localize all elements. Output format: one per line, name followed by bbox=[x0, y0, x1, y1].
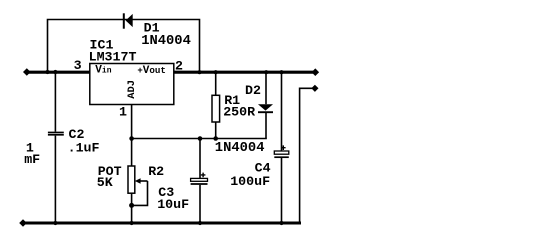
node mid-pot bbox=[129, 136, 134, 141]
svg-text:mF: mF bbox=[24, 152, 40, 167]
node gnd-pot bbox=[130, 221, 134, 225]
input terminal diamond bbox=[23, 68, 31, 76]
svg-text:250R: 250R bbox=[223, 105, 255, 120]
node out-D2 bbox=[264, 70, 268, 74]
node out-R1 bbox=[214, 70, 218, 74]
diode D1 bbox=[124, 13, 133, 28]
svg-text:Vin: Vin bbox=[95, 65, 111, 77]
svg-text:1N4004: 1N4004 bbox=[215, 141, 265, 156]
svg-text:100uF: 100uF bbox=[230, 174, 270, 189]
svg-text:+Vout: +Vout bbox=[137, 65, 166, 77]
node gnd-C4 bbox=[279, 221, 283, 225]
wire ADJ pin1 bbox=[131, 105, 133, 139]
svg-text:LM317T: LM317T bbox=[89, 49, 137, 64]
regulator IC1 LM317T box bbox=[90, 64, 174, 105]
ground rail wire bbox=[25, 222, 301, 225]
svg-text:1N4004: 1N4004 bbox=[141, 34, 191, 49]
output terminal diamond bbox=[312, 68, 320, 76]
svg-text:.1uF: .1uF bbox=[68, 140, 100, 155]
node input-C2 bbox=[53, 70, 57, 74]
wire thick output bbox=[174, 71, 313, 74]
svg-text:10uF: 10uF bbox=[157, 197, 189, 212]
svg-text:D2: D2 bbox=[245, 83, 261, 98]
top rail wire bbox=[48, 20, 200, 71]
wire mid rail bbox=[132, 138, 267, 140]
node mid-C3 bbox=[198, 136, 203, 141]
capacitor C4 bbox=[274, 73, 289, 222]
svg-text:5K: 5K bbox=[97, 175, 113, 190]
node out-toprail bbox=[197, 70, 201, 74]
node input-toprail bbox=[45, 70, 49, 74]
svg-text:3: 3 bbox=[74, 58, 82, 73]
resistor R1 bbox=[212, 73, 220, 139]
node gnd-C3 bbox=[198, 221, 202, 225]
potentiometer POT R2 bbox=[128, 139, 148, 223]
output return terminal diamond bbox=[311, 85, 318, 92]
capacitor C3 bbox=[191, 139, 208, 223]
node mid-R1 bbox=[213, 136, 218, 141]
diode D2 bbox=[258, 73, 273, 139]
svg-text:1: 1 bbox=[119, 105, 127, 120]
ground terminal diamond bbox=[19, 219, 27, 227]
wire thick input bbox=[28, 71, 90, 74]
svg-text:ADJ: ADJ bbox=[126, 80, 138, 99]
wire output return bbox=[300, 88, 312, 222]
svg-text:R2: R2 bbox=[148, 164, 164, 179]
node out-C4 bbox=[279, 70, 283, 74]
node gnd-C2 bbox=[53, 221, 57, 225]
capacitor C2 bbox=[48, 73, 64, 222]
